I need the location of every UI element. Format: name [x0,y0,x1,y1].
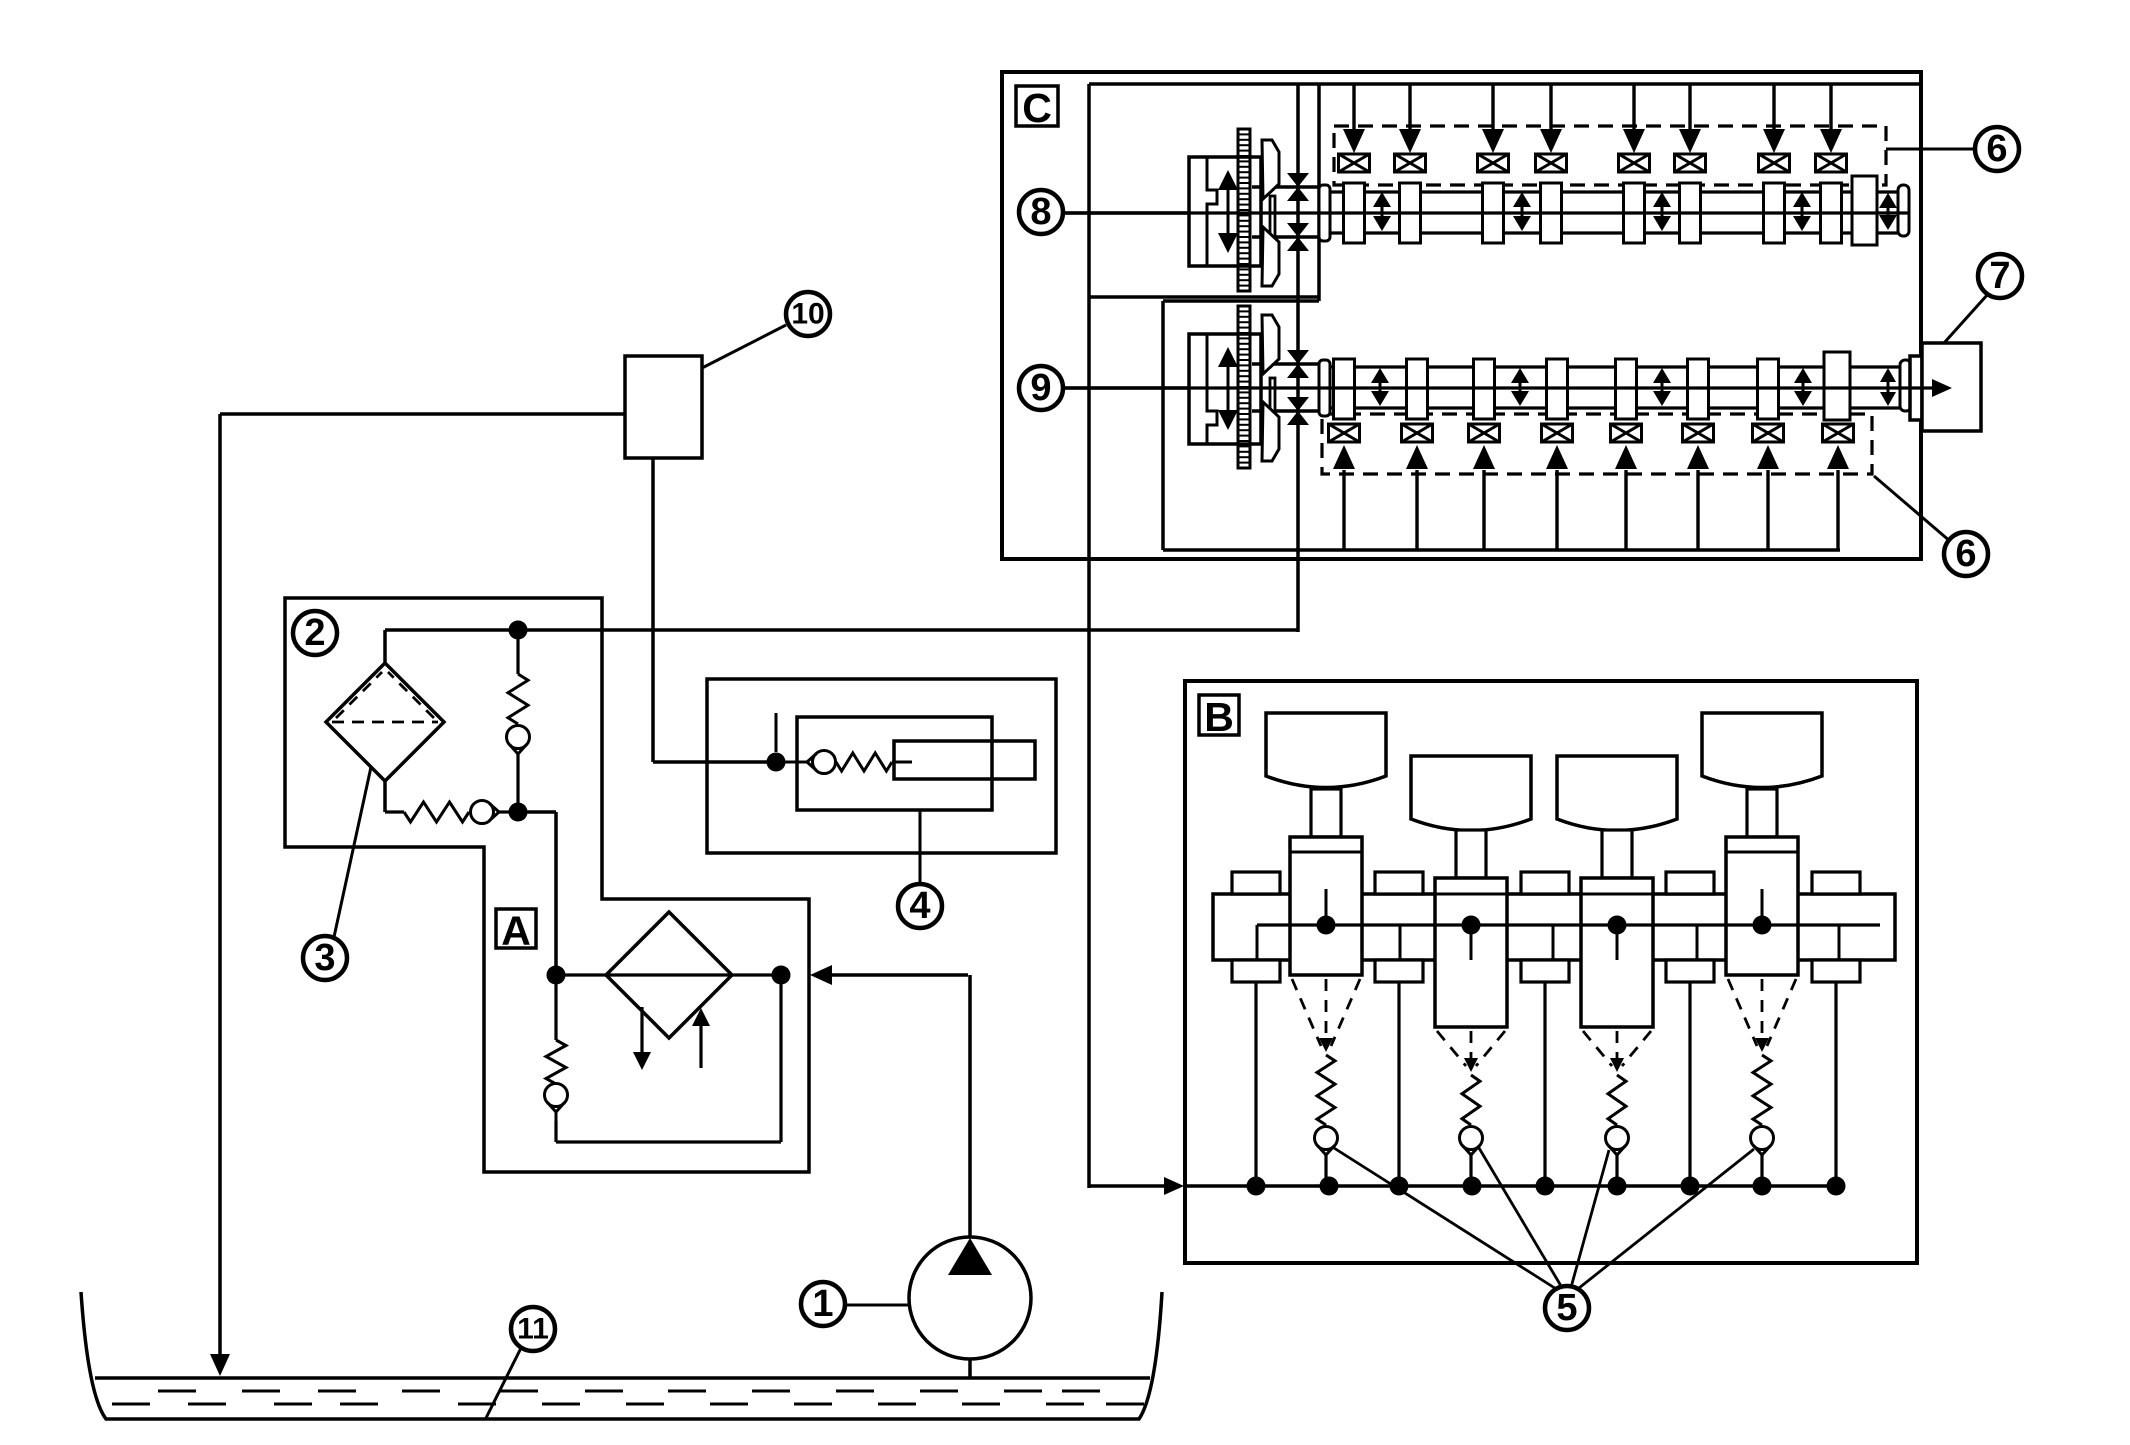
band gallery line [1257,923,1880,926]
relief valve inlet junction [767,753,786,772]
oil level dashes row 1 [158,1390,196,1393]
svg-text:C: C [1022,85,1052,131]
cam 8 lobe oiling points (crossed boxes) [1339,154,1370,172]
label circle 10 [786,292,830,336]
lifter body unit 4 [1726,837,1798,975]
oil jet drop arrows to cam 8 lobes [1352,84,1355,136]
cam 8 centerline [1063,211,1909,214]
dashed boundary 6 lower (cam 9 lubrication points) [1322,414,1872,474]
outlet arrow [1911,386,1938,389]
label circle 3 [303,936,347,980]
oil supply line from filter to camshafts (vertical riser) [1296,84,1300,632]
label circle 9 (exhaust camshaft) [1019,366,1063,410]
VVT stroke arrow cam 9 [1227,367,1230,410]
junction node filter A left [547,966,566,985]
check ball unit 1 [1315,1127,1338,1150]
svg-text:7: 7 [1989,255,2010,297]
svg-text:6: 6 [1955,533,1976,575]
label circle 8 (intake camshaft) [1019,190,1063,234]
label circle 7 [1978,254,2022,298]
label B [1199,695,1239,735]
lash adjuster spring unit 4 [1753,1055,1771,1125]
inner box around camshaft 9 drive [1163,299,1319,303]
sprocket plate web cam 9 [1270,378,1275,428]
oil mist funnel unit 2 (dashed) [1437,1031,1466,1066]
leader line 8 [1063,211,1189,215]
valve stem unit 4 [1747,789,1777,837]
supply arrow into B [1089,1184,1166,1188]
leader line 9 [1063,386,1189,390]
valve head cup unit 3 [1557,756,1677,831]
relief valve body [797,717,992,810]
enclosure B (valve lifters / lash adjusters) [1185,681,1917,1263]
oil pump 1 discharge line [968,975,972,1238]
label circle 11 [511,1307,555,1351]
return line from cooler to oil pan [220,412,625,416]
junction node filter 2 bottom [509,803,528,822]
valve head cup unit 1 [1266,713,1386,788]
oil mist funnel unit 1 (dashed) [1292,979,1321,1046]
lifter body unit 1 [1290,837,1362,975]
label C [1016,86,1058,126]
manifold junction nodes [1247,1177,1266,1196]
oil port node unit 3 [1616,934,1619,960]
label circle 4 [898,884,942,928]
cam 9 end clearance arrow [1887,382,1890,392]
leader lines to 5 [1334,1148,1561,1292]
svg-text:9: 9 [1030,367,1051,409]
anti-drainback spring box 2 [404,802,469,822]
lash adjuster spring unit 3 [1608,1075,1626,1125]
suction filter A (diamond) [606,912,732,1038]
svg-text:6: 6 [1986,128,2007,170]
timing sprocket cam 9 [1238,306,1250,468]
cam 8 end clearance arrow [1887,208,1890,215]
check ball unit 4 [1751,1127,1774,1150]
check ball unit 3 [1606,1127,1629,1150]
oil mist funnel unit 3 (dashed) [1583,1031,1612,1066]
oil port node unit 4 [1761,889,1764,916]
oil port node unit 1 [1325,889,1328,916]
VVT actuator housing cam 9 [1189,334,1261,444]
filter A flow line [556,973,781,976]
rocker shaft / lifter body band [1213,894,1895,960]
junction node filter A right [772,966,791,985]
oil mist funnel unit 4 (dashed) [1728,979,1757,1046]
check ball unit 2 [1460,1127,1483,1150]
oil header line to cam 8 lobes [1319,82,1921,86]
relief valve check ball [785,761,807,764]
lifter body unit 3 [1581,878,1653,1027]
filter A bypass loop [554,1121,557,1142]
sprocket plate cam 8 upper [1262,140,1279,199]
cam 9 journals [1334,359,1355,419]
relief valve assembly 4 outer box [707,679,1056,853]
lash adjuster spring unit 1 [1317,1055,1335,1125]
cam 9 end journal [1824,352,1850,420]
line cooler to relief valve [651,458,655,762]
oil pan 11 [81,1292,1162,1419]
bypass spring box 2 [516,638,519,674]
anti-drainback check ball box 2 [471,801,494,824]
relief valve piston [894,741,1035,779]
svg-text:10: 10 [791,298,824,331]
label A [496,909,536,948]
leader line to 6 lower [1874,476,1951,542]
band bosses lower [1232,960,1280,982]
filter A bypass check ball [545,1084,568,1107]
oil pump 1 [909,1237,1031,1359]
valve head cup unit 2 [1411,756,1531,831]
main oil line to camshafts [385,628,1298,632]
svg-text:8: 8 [1030,191,1051,233]
svg-text:4: 4 [909,885,930,927]
oil outlet block 7 [1910,356,1922,420]
svg-text:2: 2 [304,612,325,654]
oil port node unit 2 [1470,934,1473,960]
filter A bypass spring [554,984,557,1040]
oil feed line from pump gallery to head [1087,84,1091,1188]
front seal ring cam 8 [1319,185,1330,241]
leader line to 11 [486,1348,521,1418]
bypass check ball box 2 [507,726,530,749]
lifter body unit 2 [1435,878,1507,1027]
filter 2 outlet line [383,781,387,812]
sprocket plate cam 9 upper [1262,315,1279,374]
svg-text:B: B [1204,694,1234,740]
line filter 2 top to junction [383,630,387,663]
svg-text:11: 11 [517,1313,549,1346]
label circle 5 [1545,1286,1589,1330]
cam 9 lobe oiling points (crossed boxes) [1329,424,1360,442]
cam 9 centerline [1063,386,1920,389]
filter A bypass up arrow [699,1022,702,1068]
oil jet rise arrows to cam 9 lobes [1342,470,1345,550]
valve head cup unit 4 [1702,713,1822,788]
valve stem unit 3 [1602,830,1632,878]
cam 8 front hub [1252,185,1318,189]
label circle 6 upper [1975,127,2019,171]
thrust oiling points cam 9 (bowties) [1287,350,1309,364]
filter A bypass down arrow [640,1007,643,1055]
inlet arrow into A from pump [826,973,968,977]
cam 8 end thrust ring [1898,185,1909,236]
cam 8 journal clearance arrows [1381,207,1384,216]
inner box around camshaft 8 drive [1089,82,1319,86]
cam 9 front hub [1252,362,1318,366]
oil filter bypass enclosure 2/A (stepped outline) [285,598,809,1172]
sprocket plate cam 9 lower [1262,402,1279,461]
VVT actuator housing cam 8 [1189,157,1261,266]
label circle 2 [293,611,337,655]
leader line to 10 [702,325,786,368]
pump suction line [968,1359,972,1378]
lash adjuster spring unit 2 [1462,1075,1480,1125]
front seal ring cam 9 [1319,360,1330,416]
leader line to 6 upper [1886,148,1975,151]
lifter bore guide lines [1254,978,1257,1186]
filter element 3 (diamond) in box 2 [326,663,444,781]
valve stem unit 1 [1311,789,1341,837]
thrust oiling points cam 8 (bowties) [1287,173,1309,187]
svg-text:A: A [501,908,531,954]
junction node filter 2 top [509,621,528,640]
sprocket plate web cam 8 [1270,196,1275,252]
camshaft 9 shaft [1330,365,1911,368]
label circle 6 lower [1944,532,1988,576]
line from junction 2 down to filter A [518,810,556,814]
enclosure C (cylinder head / camshaft housing) [1002,72,1921,559]
leader line to 4 [919,810,922,884]
svg-text:3: 3 [314,937,335,979]
cam 9 end thrust ring [1900,360,1911,411]
valve stem unit 2 [1456,830,1486,878]
band bosses upper [1232,872,1280,894]
dashed boundary 6 upper (cam 8 lubrication points) [1334,126,1886,185]
oil gallery line under cam 9 (box 9 bottom) [1163,548,1840,552]
leader line to 1 [845,1304,908,1307]
VVT stroke arrow cam 8 [1227,190,1230,233]
svg-text:5: 5 [1556,1287,1577,1329]
cam 9 journal clearance arrows [1379,383,1382,391]
oil cooler block 10 [625,356,702,458]
sprocket plate cam 8 lower [1262,227,1279,286]
cam 8 end journal [1852,176,1877,245]
lifter gallery manifold line [1184,1184,1840,1188]
svg-text:1: 1 [812,1283,833,1325]
leader line to 7 [1944,294,1988,343]
oil level dashes row 2 [112,1403,150,1406]
leader line to 3 [334,767,371,937]
timing sprocket cam 8 [1238,129,1250,291]
cam 8 journals [1344,183,1365,243]
label circle 1 [801,1282,845,1326]
relief valve spring [836,753,892,771]
camshaft 8 shaft [1330,190,1902,193]
